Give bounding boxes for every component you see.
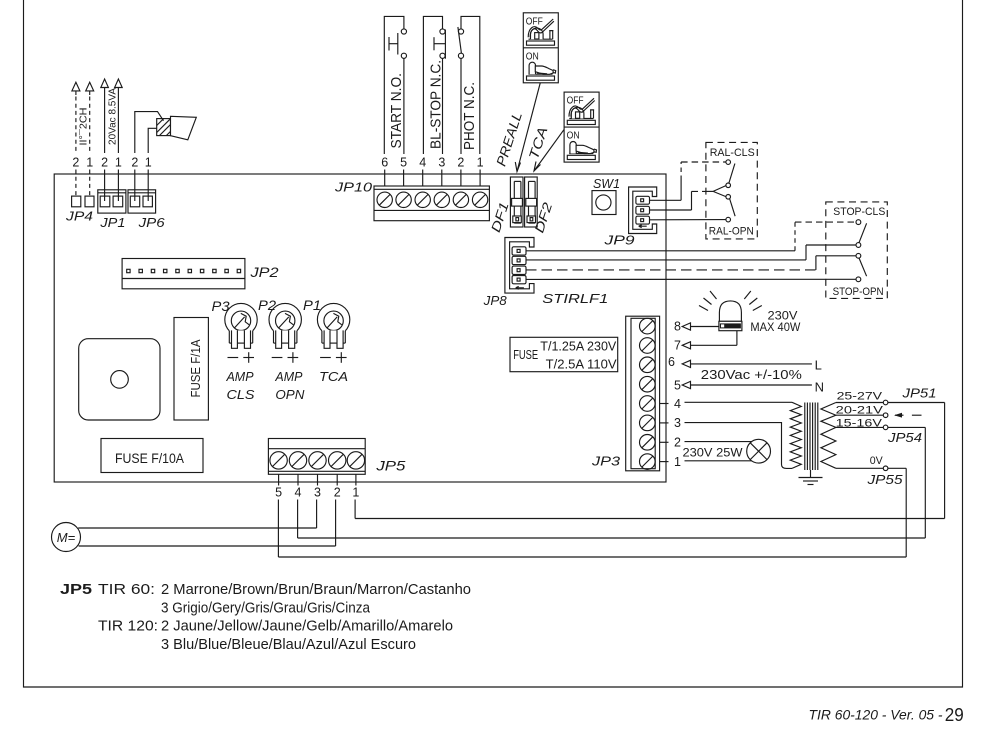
antenna arrow JP4 pin1 <box>86 82 94 95</box>
motor M <box>52 523 81 552</box>
connector JP1 <box>98 190 126 213</box>
svg-text:5: 5 <box>400 156 407 170</box>
pushbutton SW1 <box>592 191 616 215</box>
leader arrow to DF1 <box>515 83 540 172</box>
svg-text:6: 6 <box>381 156 388 170</box>
svg-text:JP4: JP4 <box>65 209 93 224</box>
svg-text:TCA: TCA <box>319 369 348 384</box>
thick stub JP6 pin1 <box>147 170 149 202</box>
svg-text:PHOT N.C.: PHOT N.C. <box>462 82 478 150</box>
dip switch DF1 <box>510 177 523 227</box>
svg-text:JP55: JP55 <box>866 472 903 487</box>
potentiometer P3 <box>225 303 257 348</box>
tap 0V JP55 <box>836 466 906 471</box>
svg-text:JP3: JP3 <box>591 454 621 469</box>
svg-text:2 Jaune/Jellow/Jaune/Gelb/Amar: 2 Jaune/Jellow/Jaune/Gelb/Amarillo/Amare… <box>161 619 453 635</box>
svg-text:2: 2 <box>674 436 681 450</box>
svg-text:20-21V: 20-21V <box>836 405 884 417</box>
svg-text:AMP: AMP <box>274 369 302 384</box>
svg-text:MAX 40W: MAX 40W <box>750 322 800 334</box>
dashed wire JP8 pin3 to STOP common2 <box>526 256 856 270</box>
stub JP1 pin2 <box>104 170 106 202</box>
stub JP1 pin1 <box>117 170 119 202</box>
switch START N.O. contacts <box>389 29 407 154</box>
wire M to JP5 pin3 <box>78 500 316 529</box>
transformer secondary winding <box>821 403 836 469</box>
arrow JP1 pin1 <box>115 79 123 88</box>
wire JP1 pin1 <box>117 88 119 154</box>
JP5 pin stubs <box>279 474 356 485</box>
svg-text:6: 6 <box>668 355 675 369</box>
svg-text:0V: 0V <box>870 455 884 467</box>
OFF ON pictogram box 1 (PREALL) <box>523 13 558 83</box>
fuse F/10A box <box>101 439 203 473</box>
svg-text:AMP: AMP <box>226 369 254 384</box>
RAL switch contacts and levers <box>713 160 735 222</box>
svg-text:OFF: OFF <box>567 95 584 107</box>
svg-text:OPN: OPN <box>275 387 305 402</box>
svg-text:L: L <box>815 358 822 373</box>
svg-text:CLS: CLS <box>227 387 255 402</box>
svg-text:P3: P3 <box>212 299 231 314</box>
selector arrow at 20-21V <box>894 413 922 418</box>
svg-text:1: 1 <box>86 156 93 170</box>
svg-text:2 Marrone/Brown/Brun/Braun/Mar: 2 Marrone/Brown/Brun/Braun/Marron/Castan… <box>161 582 471 598</box>
svg-text:N: N <box>815 380 824 395</box>
svg-text:ON: ON <box>567 130 580 142</box>
JP3 pin ticks 4-1 <box>660 404 669 462</box>
switch START N.O. loop wires <box>384 16 404 154</box>
wire JP3 pin3 to transformer bottom <box>685 423 793 469</box>
svg-text:JP6: JP6 <box>137 215 165 230</box>
ground symbol <box>799 470 823 485</box>
svg-text:4: 4 <box>295 486 302 500</box>
svg-text:8: 8 <box>674 320 681 334</box>
svg-text:5: 5 <box>674 379 681 393</box>
svg-text:1: 1 <box>352 486 359 500</box>
svg-text:JP9: JP9 <box>603 233 634 248</box>
wire JP3 pin5 N <box>682 381 812 388</box>
svg-text:TIR 60-120 - Ver. 05 -: TIR 60-120 - Ver. 05 - <box>809 708 944 723</box>
svg-text:JP10: JP10 <box>334 180 373 195</box>
svg-text:JP5: JP5 <box>60 582 92 598</box>
svg-text:2: 2 <box>101 156 108 170</box>
switch PHOT N.C. contacts <box>458 27 464 154</box>
svg-text:2: 2 <box>72 156 79 170</box>
svg-text:1: 1 <box>145 156 152 170</box>
P3 minus plus marks <box>228 352 255 363</box>
wire JP9 pin3 to RAL-OPN <box>650 219 726 221</box>
svg-text:3: 3 <box>314 486 321 500</box>
svg-text:FUSE F/10A: FUSE F/10A <box>115 451 184 466</box>
svg-text:OFF: OFF <box>526 15 543 27</box>
svg-text:BL-STOP N.C.: BL-STOP N.C. <box>429 60 445 149</box>
transformer core <box>805 403 818 471</box>
dashed wire JP4 pin1 <box>89 97 91 154</box>
wire JP3 pin8 to beacon <box>682 323 719 330</box>
svg-text:20Vac 8.5VA: 20Vac 8.5VA <box>107 88 119 145</box>
wire JP3 pin6 L <box>682 360 812 367</box>
svg-text:JP2: JP2 <box>249 265 279 280</box>
PCB board outline <box>54 174 666 482</box>
svg-text:ON: ON <box>526 50 539 62</box>
svg-text:230Vac +/-10%: 230Vac +/-10% <box>701 367 802 382</box>
antenna arrow JP4 pin2 <box>72 82 80 95</box>
wire JP3 pin7 beacon return <box>682 331 737 349</box>
svg-text:JP8: JP8 <box>483 293 508 308</box>
terminal block JP10 <box>374 186 489 221</box>
connector JP2 <box>122 259 245 289</box>
lamp 230V 25W <box>747 439 771 463</box>
tap 25-27V JP51 <box>836 400 945 405</box>
coax braid hatched box <box>157 119 171 136</box>
switch PHOT N.C. loop wires <box>461 16 480 154</box>
dashed box RAL <box>706 142 757 239</box>
svg-text:JP5: JP5 <box>375 458 406 473</box>
wire JP5 pin5 to JP55 <box>278 468 906 557</box>
leader arrow to DF2 <box>534 129 564 171</box>
P1 minus plus marks <box>320 352 347 363</box>
svg-text:3: 3 <box>438 156 445 170</box>
transformer primary winding <box>790 402 801 468</box>
relay module square <box>79 339 160 420</box>
JP10 pin stubs <box>385 170 480 187</box>
wire JP9 pin2 to RAL common <box>650 191 714 210</box>
wire JP8 pin2 to STOP common1 <box>526 245 856 260</box>
svg-text:START N.O.: START N.O. <box>389 73 405 149</box>
terminal block JP5 <box>268 439 365 475</box>
potentiometer P2 <box>269 303 301 348</box>
svg-text:2: 2 <box>131 156 138 170</box>
dashed stub JP4 pin1 to pad <box>89 170 91 197</box>
STOP switch contacts and levers <box>856 220 867 282</box>
svg-text:STOP-CLS: STOP-CLS <box>833 206 885 218</box>
svg-text:RAL-CLS: RAL-CLS <box>710 147 755 159</box>
svg-text:P1: P1 <box>303 298 321 313</box>
thick coax wire JP6 pin1 <box>148 128 157 153</box>
svg-text:JP1: JP1 <box>99 215 125 230</box>
svg-text:II°¯2CH: II°¯2CH <box>78 108 90 146</box>
svg-text:230V: 230V <box>768 310 798 322</box>
svg-text:15-16V: 15-16V <box>836 418 883 430</box>
P2 minus plus marks <box>272 352 299 363</box>
svg-text:STOP-OPN: STOP-OPN <box>833 286 884 298</box>
svg-text:3 Blu/Blue/Bleue/Blau/Azul/Azu: 3 Blu/Blue/Bleue/Blau/Azul/Azul Escuro <box>161 637 416 653</box>
coax cable funnel <box>171 116 197 140</box>
svg-text:2: 2 <box>457 156 464 170</box>
svg-text:1: 1 <box>477 156 484 170</box>
connector JP6 <box>128 190 156 213</box>
svg-text:4: 4 <box>419 156 426 170</box>
connector JP4 pads <box>72 196 94 207</box>
connector JP8 <box>505 238 534 294</box>
svg-text:25-27V: 25-27V <box>837 391 883 403</box>
thick stub JP6 pin2 <box>134 170 136 202</box>
wire M to JP5 pin2 <box>79 500 336 547</box>
svg-text:5: 5 <box>275 486 282 500</box>
svg-text:FUSE F/1A: FUSE F/1A <box>188 339 203 397</box>
svg-text:T/2.5A 110V: T/2.5A 110V <box>546 358 618 372</box>
svg-text:STIRLF1: STIRLF1 <box>542 291 608 306</box>
wire JP5 pin4 to JP54 <box>298 427 926 538</box>
wire JP3 pin1 to lamp <box>685 460 752 462</box>
dashed stub JP4 pin2 to pad <box>75 170 77 197</box>
wire JP9 pin1 to RAL-CLS <box>650 162 726 200</box>
svg-text:3 Grigio/Gery/Gris/Grau/Gris/C: 3 Grigio/Gery/Gris/Grau/Gris/Cinza <box>161 600 371 616</box>
svg-text:4: 4 <box>674 397 681 411</box>
svg-text:1: 1 <box>674 455 681 469</box>
wire JP3 pin2 to lamp <box>685 441 752 443</box>
text block JP5 motor wire colours <box>60 582 471 653</box>
switch BL-STOP N.C. contacts <box>434 29 445 154</box>
beacon lamp 230V MAX 40W <box>699 291 762 331</box>
svg-text:2: 2 <box>334 486 341 500</box>
wire JP1 pin2 <box>104 88 106 154</box>
JP10 pin numbers 6-1 <box>381 156 483 170</box>
svg-text:JP54: JP54 <box>887 430 922 445</box>
svg-text:M=: M= <box>57 530 76 545</box>
wire JP8 pin4 to STOP-OPN <box>526 278 856 280</box>
svg-text:3: 3 <box>674 416 681 430</box>
svg-text:TIR 60:: TIR 60: <box>98 582 155 598</box>
terminal block JP3 <box>626 316 660 471</box>
OFF ON pictogram box 2 (TCA) <box>564 92 599 162</box>
svg-text:29: 29 <box>945 704 964 725</box>
tap 20-21V <box>836 413 888 418</box>
svg-text:T/1.25A 230V: T/1.25A 230V <box>540 340 617 354</box>
arrow JP1 pin2 <box>101 79 109 88</box>
pin numbers 2 1 2 1 2 1 row <box>72 156 151 170</box>
footer page label <box>809 704 964 725</box>
svg-text:P2: P2 <box>258 298 277 313</box>
switch BL-STOP N.C. loop wires <box>423 16 442 154</box>
wire JP3 pin4 to transformer <box>685 401 793 403</box>
connector JP9 <box>629 187 657 234</box>
tap 15-16V JP54 <box>836 425 925 430</box>
svg-text:SW1: SW1 <box>593 176 620 191</box>
fuse F/1A box <box>174 318 208 421</box>
JP3 pin numbers 8-1 <box>668 320 681 469</box>
dip switch DF2 <box>525 177 538 227</box>
thick coax wire JP6 pin2 <box>135 112 164 153</box>
svg-text:FUSE: FUSE <box>513 348 538 362</box>
potentiometer P1 <box>317 303 349 348</box>
svg-text:230V 25W: 230V 25W <box>683 447 743 459</box>
svg-text:1: 1 <box>115 156 122 170</box>
dashed wire JP4 pin2 <box>75 97 77 154</box>
svg-text:JP51: JP51 <box>901 385 936 400</box>
wire JP5 pin1 to JP51 <box>355 403 945 519</box>
JP5 pin numbers 5-1 <box>275 486 359 500</box>
svg-text:7: 7 <box>674 339 681 353</box>
svg-text:RAL-OPN: RAL-OPN <box>709 226 754 238</box>
dashed box STOP <box>826 202 888 299</box>
svg-text:TIR 120:: TIR 120: <box>98 619 158 635</box>
wire JP8 pin1 to STOP-CLS <box>526 222 856 251</box>
fuse rating box T/1.25A <box>510 337 618 371</box>
